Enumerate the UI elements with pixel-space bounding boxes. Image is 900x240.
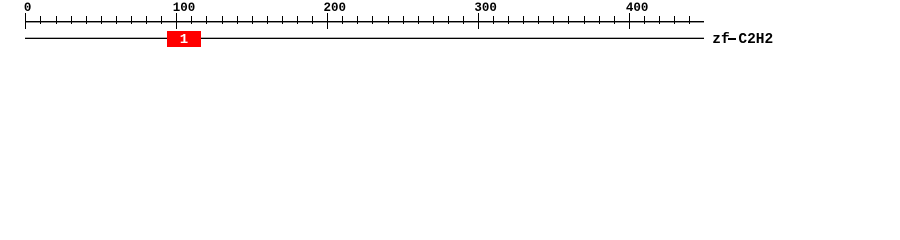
ruler minor tick 430 (674, 16, 675, 24)
ruler major tick 0 (25, 13, 26, 29)
ruler minor tick 330 (523, 16, 524, 24)
ruler minor tick 110 (191, 16, 192, 24)
ruler minor tick 140 (237, 16, 238, 24)
ruler major tick 100 (176, 13, 177, 29)
ruler minor tick 390 (614, 16, 615, 24)
ruler minor tick 150 (252, 16, 253, 24)
ruler minor tick 260 (418, 16, 419, 24)
ruler label 300 (474, 0, 497, 18)
domain box zf-C2H2 (1) (167, 31, 201, 47)
ruler minor tick 90 (161, 16, 162, 24)
ruler minor tick 10 (40, 16, 41, 24)
ruler minor tick 160 (267, 16, 268, 24)
ruler label 100 (173, 0, 196, 18)
ruler minor tick 360 (568, 16, 569, 24)
sequence line (25, 38, 704, 39)
ruler label 200 (324, 0, 347, 18)
domain name hyphen stroke (728, 38, 737, 40)
ruler minor tick 170 (282, 16, 283, 24)
ruler minor tick 70 (131, 16, 132, 24)
ruler minor tick 280 (448, 16, 449, 24)
ruler minor tick 350 (553, 16, 554, 24)
ruler minor tick 310 (493, 16, 494, 24)
ruler major tick 200 (327, 13, 328, 29)
ruler minor tick 230 (372, 16, 373, 24)
ruler minor tick 20 (56, 16, 57, 24)
ruler minor tick 270 (433, 16, 434, 24)
ruler minor tick 80 (146, 16, 147, 24)
ruler major tick 400 (629, 13, 630, 29)
ruler minor tick 190 (312, 16, 313, 24)
ruler label 0 (24, 0, 32, 18)
ruler minor tick 440 (689, 16, 690, 24)
ruler line soft edge (25, 22, 704, 23)
ruler minor tick 320 (508, 16, 509, 24)
ruler minor tick 50 (101, 16, 102, 24)
ruler minor tick 130 (222, 16, 223, 24)
ruler minor tick 240 (388, 16, 389, 24)
ruler line (25, 21, 704, 22)
ruler minor tick 380 (599, 16, 600, 24)
ruler minor tick 60 (116, 16, 117, 24)
ruler major tick 300 (478, 13, 479, 29)
ruler minor tick 340 (538, 16, 539, 24)
ruler minor tick 370 (584, 16, 585, 24)
ruler minor tick 290 (463, 16, 464, 24)
ruler minor tick 180 (297, 16, 298, 24)
ruler minor tick 420 (659, 16, 660, 24)
ruler minor tick 210 (342, 16, 343, 24)
ruler minor tick 40 (86, 16, 87, 24)
ruler minor tick 30 (71, 16, 72, 24)
ruler minor tick 220 (357, 16, 358, 24)
ruler minor tick 120 (206, 16, 207, 24)
ruler label 400 (626, 0, 649, 18)
ruler minor tick 410 (644, 16, 645, 24)
domain number 1 (167, 30, 201, 50)
sequence line soft edge (25, 37, 704, 38)
domain name label zf-C2H2 (712, 30, 773, 50)
ruler minor tick 250 (403, 16, 404, 24)
